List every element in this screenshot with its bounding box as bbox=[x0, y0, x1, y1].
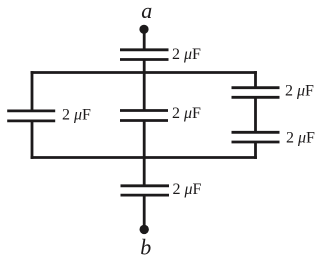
svg-text:2 μF: 2 μF bbox=[173, 181, 202, 198]
wire right branch middle segment bbox=[254, 97, 257, 132]
capacitor C4 2uF top plate bbox=[232, 86, 280, 89]
wire right branch upper segment bbox=[254, 71, 257, 88]
wire left branch lower segment bbox=[31, 121, 34, 159]
capacitor C3 2uF bottom plate bbox=[120, 119, 168, 122]
svg-text:2 μF: 2 μF bbox=[286, 129, 315, 146]
wire right branch lower segment bbox=[254, 142, 257, 159]
node b bbox=[140, 225, 149, 234]
wire top rail bbox=[31, 71, 257, 74]
wire C1 to top rail and to capacitor C3 bbox=[143, 60, 146, 111]
svg-text:b: b bbox=[140, 235, 151, 260]
svg-text:2 μF: 2 μF bbox=[285, 82, 314, 99]
svg-text:2 μF: 2 μF bbox=[172, 46, 201, 63]
capacitor C6 2uF top plate bbox=[121, 184, 170, 187]
capacitor C1 2uF bottom plate bbox=[120, 58, 169, 61]
wire bottom rail bbox=[31, 156, 257, 159]
svg-text:a: a bbox=[141, 0, 152, 23]
capacitor C2 2uF top plate bbox=[7, 110, 55, 113]
capacitor C2 2uF bottom plate bbox=[7, 120, 55, 123]
capacitor C6 2uF bottom plate bbox=[121, 194, 170, 197]
svg-text:2 μF: 2 μF bbox=[172, 105, 201, 122]
capacitor C5 2uF bottom plate bbox=[232, 141, 280, 144]
wire C3 to bottom rail and to capacitor C6 bbox=[143, 121, 146, 186]
wire node a to capacitor C1 bbox=[143, 29, 146, 50]
wire C6 to node b bbox=[143, 195, 146, 229]
svg-text:2 μF: 2 μF bbox=[62, 106, 91, 123]
capacitor C5 2uF top plate bbox=[232, 131, 280, 134]
wire left branch upper segment bbox=[31, 71, 34, 111]
capacitor C3 2uF top plate bbox=[120, 109, 168, 112]
capacitor C1 2uF top plate bbox=[120, 48, 169, 51]
capacitor C4 2uF bottom plate bbox=[232, 96, 280, 99]
node a bbox=[139, 25, 148, 34]
